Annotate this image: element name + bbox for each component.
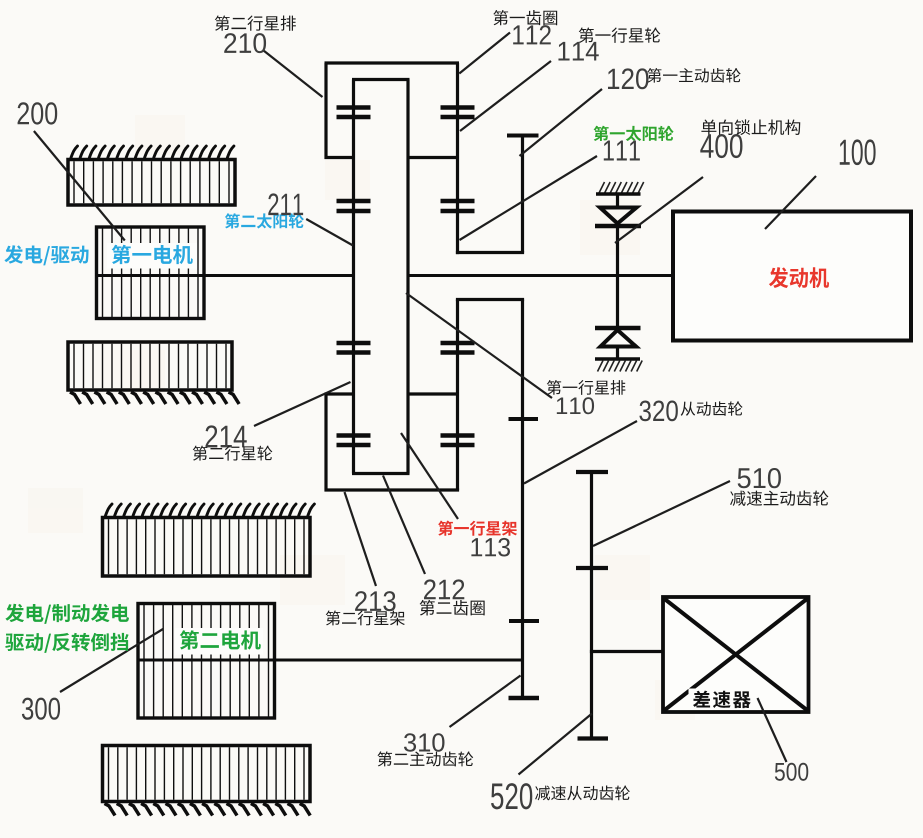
second drive gear bottom cap xyxy=(509,696,540,700)
lower frame top left xyxy=(325,392,354,395)
first sun gear line D upper xyxy=(456,63,459,254)
label second motor xyxy=(180,630,261,649)
motor1 bottom stator xyxy=(68,342,232,390)
ref 400 xyxy=(700,134,742,158)
engine label xyxy=(769,267,829,288)
lower clutch top bar xyxy=(595,326,641,330)
leader 112 xyxy=(459,33,510,74)
leader 320 xyxy=(524,421,637,484)
ref 300 xyxy=(22,698,60,720)
leader 200 xyxy=(34,131,125,241)
label first driving gear xyxy=(647,68,740,83)
narrow box top xyxy=(456,298,524,301)
white backing differential label xyxy=(689,689,758,710)
differential box 500 xyxy=(663,597,809,712)
ref 210 xyxy=(224,33,266,53)
leader 214 xyxy=(254,382,351,426)
motor1 top hatching xyxy=(71,146,234,158)
wire motor1 to second sun gear xyxy=(204,274,354,277)
leader 500 xyxy=(758,698,787,762)
label driven gear xyxy=(681,401,743,416)
ref 520 xyxy=(491,783,532,809)
label second planet gear xyxy=(193,446,273,461)
upper frame bottom left xyxy=(325,156,354,159)
differential diagonal 1 xyxy=(664,599,808,711)
ref 211 xyxy=(268,193,303,215)
ring gear line D lower xyxy=(456,300,459,491)
one-way clutch upper ground xyxy=(599,182,644,193)
upper clutch stub xyxy=(616,194,619,208)
wire clutch to shaft upper xyxy=(616,226,619,276)
leader 300 xyxy=(60,629,163,692)
white backing second motor label xyxy=(175,628,263,655)
lower clutch stub xyxy=(616,347,619,360)
ref 500 xyxy=(775,763,808,781)
link D to E xyxy=(456,251,524,254)
motor1 bottom hatching xyxy=(70,392,239,404)
motor2 top stator xyxy=(103,518,311,577)
ref 510 xyxy=(738,468,781,488)
lower one-way element (triangle) xyxy=(601,330,637,347)
leader 510 xyxy=(593,481,730,546)
reduction shaft top cap xyxy=(576,470,608,474)
label reduction driven gear xyxy=(535,786,630,801)
ref 111 xyxy=(604,141,640,161)
motor2 top hatching xyxy=(106,504,315,516)
leader 400 xyxy=(615,177,703,243)
lower frame left xyxy=(324,394,327,492)
first carrier line C xyxy=(406,80,409,474)
label first motor xyxy=(112,245,193,264)
ref 200 xyxy=(18,102,58,124)
label drive/reverse xyxy=(5,633,128,653)
leader 212 xyxy=(383,476,425,575)
first drive gear top cap xyxy=(507,134,539,138)
ref 120 xyxy=(608,68,648,89)
wire reduction shaft to differential xyxy=(590,650,663,653)
reduction shaft H xyxy=(590,472,593,739)
ref 113 xyxy=(471,538,510,557)
label first planet gear xyxy=(579,27,661,42)
label second planetary row xyxy=(215,15,296,30)
leader 213 xyxy=(345,492,377,586)
inner column bottom xyxy=(352,472,410,475)
first drive gear shaft E upper xyxy=(521,136,524,253)
label reduction driving gear xyxy=(730,491,828,506)
upper ground line xyxy=(596,192,641,196)
link C to D lower xyxy=(408,392,459,395)
reduction driving gear tick xyxy=(576,566,608,570)
second sun gear shaft B xyxy=(352,80,355,474)
ref 114 xyxy=(558,42,598,61)
ref 213 xyxy=(355,591,395,611)
ref 212 xyxy=(424,579,464,599)
label first ring gear xyxy=(493,10,557,25)
motor2 rotor xyxy=(138,604,275,719)
label second driving gear xyxy=(377,751,473,766)
one-way clutch lower ground hatching xyxy=(598,361,643,372)
inner column top xyxy=(352,78,410,81)
motor1 rotor xyxy=(97,227,205,319)
leader 100 xyxy=(765,176,816,229)
label second planet carrier xyxy=(326,610,405,625)
lower ground line xyxy=(595,357,640,361)
label generate/brake-generate xyxy=(5,604,129,624)
ref 214 xyxy=(206,425,247,447)
label first planetary row xyxy=(547,380,626,395)
ref 100 xyxy=(840,139,876,165)
second drive gear tick xyxy=(509,619,539,623)
wire main shaft to engine xyxy=(408,274,673,277)
planet gear mesh bars (second/first planetary rows) xyxy=(337,108,475,446)
leader 111 xyxy=(460,156,598,240)
motor1 top stator xyxy=(68,160,235,206)
ref 112 xyxy=(513,25,551,44)
leader 120 xyxy=(520,89,603,156)
differential label xyxy=(693,691,751,708)
motor2 bottom stator xyxy=(103,746,311,802)
label second sun gear xyxy=(225,213,304,228)
label one-way lock mechanism xyxy=(701,119,800,135)
leader 114 xyxy=(460,61,551,131)
ref 310 xyxy=(404,733,445,752)
ref 320 xyxy=(639,400,677,421)
motor2 bottom hatching xyxy=(105,804,311,816)
upper frame bottom right xyxy=(408,156,459,159)
outer frame bottom xyxy=(325,488,460,491)
outer frame left upper xyxy=(324,63,327,159)
leader 520 xyxy=(519,714,593,775)
first driven gear tick on E xyxy=(509,417,539,421)
label generate/drive xyxy=(4,245,88,265)
reduction shaft bottom cap xyxy=(578,736,609,740)
leader 210 xyxy=(263,50,322,97)
differential diagonal 2 xyxy=(664,599,808,711)
upper clutch lower bar xyxy=(595,224,641,228)
second drive gear shaft E lower xyxy=(521,300,524,699)
label second ring gear xyxy=(420,600,485,616)
upper one-way element (triangle) xyxy=(600,208,637,224)
leader 211 xyxy=(306,219,353,246)
leader 113 xyxy=(401,433,458,519)
leader 310 xyxy=(450,676,521,728)
wire motor2 to second drive gear shaft xyxy=(275,659,523,662)
ref 110 xyxy=(557,397,594,414)
leader 110 xyxy=(406,293,552,398)
white backing first motor label xyxy=(107,243,197,269)
wire clutch to shaft lower xyxy=(616,276,619,329)
label first sun gear xyxy=(594,126,674,141)
engine box 100 xyxy=(673,212,911,341)
label first planet carrier xyxy=(438,521,517,536)
outer frame top xyxy=(325,61,460,64)
